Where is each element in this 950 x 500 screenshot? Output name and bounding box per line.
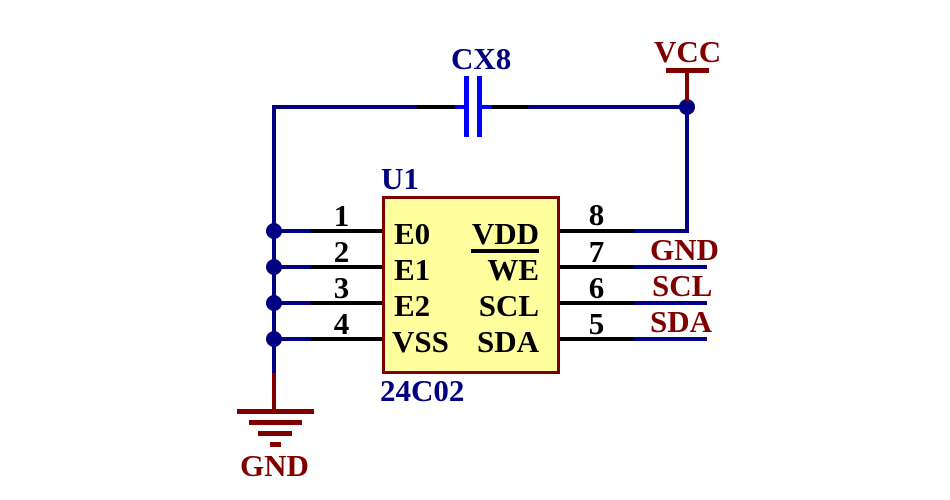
pin 5 stub black <box>560 337 634 341</box>
capacitor CX8 left plate <box>464 76 469 137</box>
value label 24C02 <box>380 375 464 406</box>
pin name E2 <box>394 290 430 321</box>
junction dot pin1 <box>266 223 282 239</box>
wire pin3 navy stub <box>274 301 311 305</box>
wire net SCL navy <box>634 301 707 305</box>
label VCC <box>654 36 721 67</box>
wire top horizontal navy (left of capacitor) <box>272 105 417 109</box>
wire left bus vertical <box>272 105 276 375</box>
pin 1 stub black <box>311 229 382 233</box>
pin number 1 <box>306 200 377 231</box>
label U1 <box>381 163 419 194</box>
overbar of WE <box>471 249 539 253</box>
pin number 4 <box>306 308 377 339</box>
ground bar 3 <box>258 431 292 436</box>
power symbol VCC bar <box>666 68 709 73</box>
net label GND <box>650 234 719 265</box>
junction dot pin3 <box>266 295 282 311</box>
label CX8 <box>451 43 511 74</box>
pin number 3 <box>306 272 377 303</box>
pin 6 stub black <box>560 301 634 305</box>
capacitor CX8 right lead (blue) <box>482 105 492 109</box>
wire top horizontal navy (right of capacitor) <box>528 105 689 109</box>
ground bar 4 <box>270 442 281 447</box>
power symbol VCC stub <box>685 73 689 101</box>
wire top black segment right of capacitor <box>492 105 528 109</box>
wire pin2 navy stub <box>274 265 311 269</box>
junction dot pin4 <box>266 331 282 347</box>
wire pin8 vertical navy <box>685 105 689 233</box>
junction dot pin2 <box>266 259 282 275</box>
wire pin8 horizontal navy <box>634 229 689 233</box>
pin number 6 <box>560 272 633 303</box>
pin 3 stub black <box>311 301 382 305</box>
pin name SDA <box>471 326 539 357</box>
pin name E0 <box>394 218 430 249</box>
pin number 2 <box>306 236 377 267</box>
pin 8 stub black <box>560 229 634 233</box>
pin name VDD <box>471 218 539 249</box>
pin name E1 <box>394 254 430 285</box>
ground bar 1 <box>237 409 314 414</box>
pin number 7 <box>560 236 633 267</box>
pin name WE <box>471 254 539 285</box>
pin 7 stub black <box>560 265 634 269</box>
pin number 5 <box>560 308 633 339</box>
wire net GND navy <box>634 265 707 269</box>
capacitor CX8 right plate <box>477 76 482 137</box>
junction dot VCC <box>679 99 695 115</box>
label GND (power) <box>240 450 309 481</box>
wire pin4 navy stub <box>274 337 311 341</box>
pin name SCL <box>471 290 539 321</box>
ground bar 2 <box>249 420 302 425</box>
pin 2 stub black <box>311 265 382 269</box>
capacitor CX8 left lead (blue) <box>455 105 465 109</box>
pin name VSS <box>392 326 449 357</box>
wire ground vertical red <box>272 373 276 411</box>
pin 4 stub black <box>311 337 382 341</box>
wire net SDA navy <box>634 337 707 341</box>
net label SDA <box>650 306 712 337</box>
net label SCL <box>652 270 712 301</box>
op-amp U1 body (IC 24C02) <box>382 196 560 374</box>
wire pin1 navy stub <box>274 229 311 233</box>
wire top black segment left of capacitor <box>417 105 455 109</box>
pin number 8 <box>560 199 633 230</box>
